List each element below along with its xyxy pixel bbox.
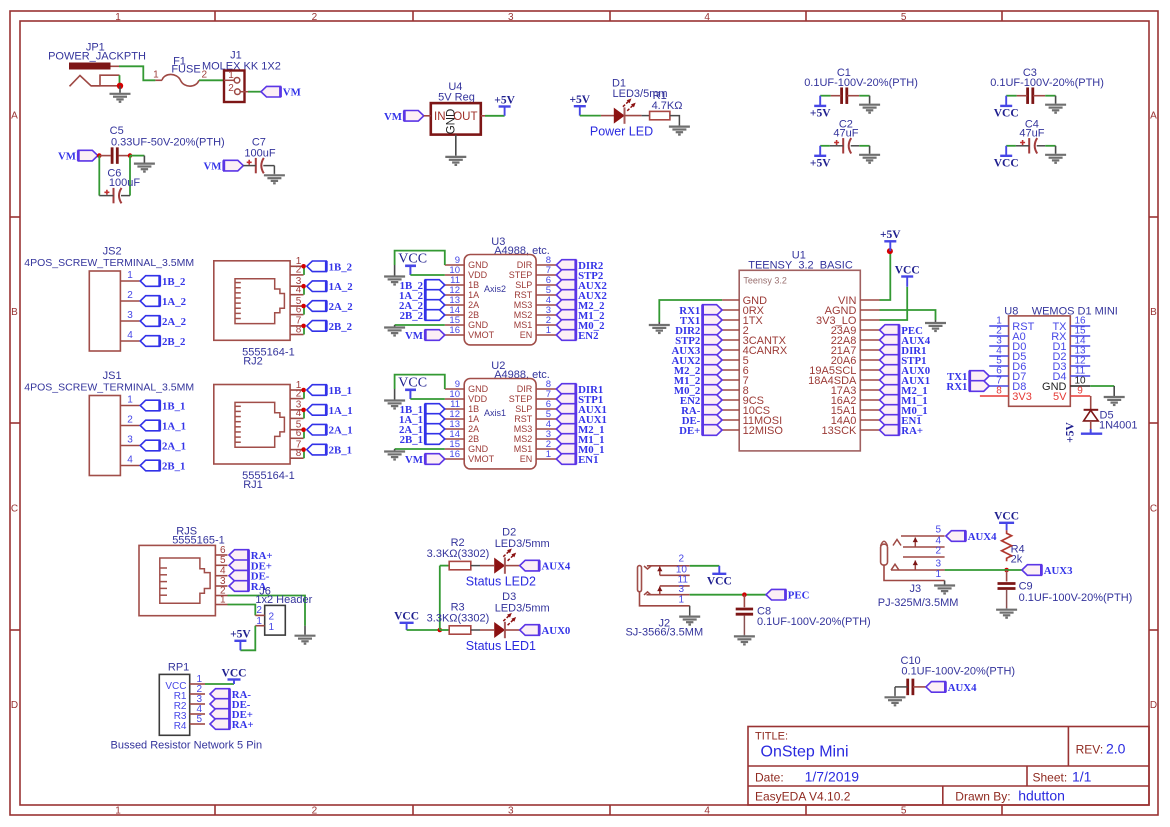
net flag EN2 — [703, 395, 723, 406]
wire — [1045, 145, 1055, 147]
svg-text:100uF: 100uF — [109, 177, 140, 189]
net flag AUX2 — [556, 280, 576, 291]
power flag VCC — [400, 622, 414, 624]
ground — [384, 265, 405, 285]
net flag TX1 — [703, 315, 723, 326]
wire — [395, 448, 445, 450]
svg-text:DIR: DIR — [517, 384, 533, 394]
net flag M1_2 — [703, 375, 723, 386]
svg-text:VCC: VCC — [222, 667, 247, 679]
net flag RA+ — [210, 719, 230, 730]
title block — [748, 727, 1149, 806]
svg-text:RST: RST — [514, 414, 533, 424]
power flag +5V — [814, 105, 826, 107]
net flag AUX3 — [1022, 565, 1042, 576]
power flag +5V — [814, 155, 826, 157]
net flag 2A_2 — [307, 301, 327, 312]
wire — [670, 116, 680, 126]
svg-text:MS3: MS3 — [514, 300, 533, 310]
svg-text:16: 16 — [449, 325, 460, 336]
svg-text:4: 4 — [127, 330, 133, 341]
svg-text:LED3/5mm: LED3/5mm — [495, 602, 550, 614]
wire — [303, 306, 305, 315]
svg-text:2: 2 — [312, 12, 318, 23]
net flag PEC — [880, 325, 900, 336]
svg-text:EasyEDA V4.10.2: EasyEDA V4.10.2 — [755, 790, 851, 804]
MCU U1 TEENSY_3.2_BASIC — [722, 249, 879, 451]
wire — [410, 398, 444, 400]
wire — [303, 390, 305, 399]
wire — [894, 687, 896, 696]
power flag VCC — [999, 522, 1014, 524]
junction — [301, 388, 306, 393]
wire — [303, 410, 305, 419]
net flag M1_1 — [556, 434, 576, 445]
power flag +5V — [234, 640, 246, 642]
net flag 1A_1 — [140, 420, 160, 431]
svg-text:+5V: +5V — [1065, 422, 1077, 443]
svg-text:4: 4 — [127, 455, 133, 466]
svg-text:MS1: MS1 — [514, 444, 533, 454]
net flag 1A_2 — [140, 296, 160, 307]
net flag M2_2 — [556, 300, 576, 311]
connector RJS 5555165-1 — [139, 526, 228, 616]
net flag M0_2 — [703, 385, 723, 396]
junction — [301, 264, 306, 269]
net flag 2A_1 — [307, 424, 327, 435]
svg-text:VCC: VCC — [895, 264, 920, 276]
net flag DE- — [210, 699, 230, 710]
resistor R2 — [427, 537, 490, 570]
capacitor C2 — [830, 118, 859, 153]
svg-text:0.1UF-100V-20%(PTH): 0.1UF-100V-20%(PTH) — [990, 77, 1104, 89]
svg-text:1A_1: 1A_1 — [162, 421, 186, 433]
svg-text:D: D — [1150, 700, 1157, 711]
net flag 1A_2 — [425, 290, 445, 301]
svg-text:SLP: SLP — [515, 404, 532, 414]
net flag AUX4 — [520, 560, 540, 571]
svg-text:1A: 1A — [468, 290, 479, 300]
net flag DE+ — [229, 560, 249, 571]
svg-text:RST: RST — [514, 290, 533, 300]
svg-text:2A_2: 2A_2 — [162, 316, 186, 328]
wire — [129, 156, 131, 196]
svg-text:GND: GND — [468, 260, 489, 270]
svg-text:1B_1: 1B_1 — [329, 385, 352, 397]
fuse F1 — [153, 56, 207, 87]
svg-text:1A_2: 1A_2 — [162, 296, 186, 308]
power flag VCC — [712, 573, 726, 575]
svg-text:4POS_SCREW_TERMINAL_3.5MM: 4POS_SCREW_TERMINAL_3.5MM — [24, 257, 194, 269]
driver module U3 A4988 — [445, 236, 557, 345]
LED D1 — [601, 77, 668, 123]
svg-text:EN2: EN2 — [578, 330, 598, 342]
junction — [301, 447, 306, 452]
svg-text:AUX4: AUX4 — [542, 561, 571, 573]
net flag VM — [224, 160, 244, 171]
svg-text:2B_1: 2B_1 — [400, 434, 423, 446]
svg-text:STEP: STEP — [509, 394, 533, 404]
junction — [301, 408, 306, 413]
capacitor C4 — [1016, 118, 1045, 153]
svg-text:SJ-3566/3.5MM: SJ-3566/3.5MM — [625, 627, 703, 639]
svg-text:2B_1: 2B_1 — [162, 461, 185, 473]
svg-text:1: 1 — [115, 806, 121, 817]
svg-text:1/1: 1/1 — [1072, 769, 1092, 785]
svg-text:EN: EN — [520, 454, 533, 464]
wire — [1006, 95, 1016, 97]
net flag 1A_2 — [307, 281, 327, 292]
net flag 1B_1 — [307, 385, 327, 396]
svg-text:8: 8 — [296, 448, 302, 459]
net flag AUX4 — [946, 531, 966, 542]
svg-text:+5V: +5V — [230, 629, 251, 641]
net flag DIR2 — [556, 260, 576, 271]
net flag 1B_2 — [307, 261, 327, 272]
junction — [301, 284, 306, 289]
wire — [1006, 145, 1016, 147]
svg-text:Status LED1: Status LED1 — [466, 639, 536, 653]
svg-text:3: 3 — [127, 435, 133, 446]
svg-text:2: 2 — [256, 605, 262, 616]
power flag +5V — [574, 105, 586, 107]
svg-text:8: 8 — [996, 386, 1002, 397]
svg-text:8: 8 — [296, 324, 302, 335]
svg-text:Bussed Resistor Network 5 Pin: Bussed Resistor Network 5 Pin — [110, 739, 262, 751]
net flag DE- — [229, 570, 249, 581]
net flag AUX1 — [556, 414, 576, 425]
svg-text:5: 5 — [220, 555, 226, 566]
net flag 2B_1 — [425, 434, 445, 445]
svg-text:PEC: PEC — [788, 590, 810, 602]
svg-text:DIR: DIR — [517, 260, 533, 270]
svg-text:+5V: +5V — [569, 94, 590, 106]
svg-text:RP1: RP1 — [168, 661, 189, 673]
ground — [859, 96, 880, 113]
ground — [925, 320, 946, 331]
svg-text:VCC: VCC — [398, 376, 427, 391]
capacitor C3 — [990, 67, 1104, 104]
svg-text:EN: EN — [520, 330, 533, 340]
ground — [1045, 96, 1066, 113]
net flag DE+ — [210, 709, 230, 720]
power flag VCC — [1000, 155, 1012, 157]
svg-text:REV:: REV: — [1076, 743, 1104, 757]
svg-text:2: 2 — [296, 265, 302, 276]
svg-text:1: 1 — [127, 270, 133, 281]
power flag VCC — [228, 678, 241, 680]
net flag M0_1 — [556, 444, 576, 455]
connector JS2 4POS_SCREW_TERMINAL_3.5MM — [24, 246, 194, 352]
ground — [384, 325, 405, 336]
ground — [734, 635, 755, 645]
svg-text:A: A — [11, 110, 18, 121]
junction — [301, 304, 306, 309]
svg-text:TITLE:: TITLE: — [755, 731, 788, 743]
junction — [887, 248, 893, 254]
svg-text:1: 1 — [127, 395, 133, 406]
wire — [395, 324, 445, 326]
capacitor C1 — [804, 67, 918, 104]
capacitor C8 — [736, 595, 871, 635]
svg-text:2A_2: 2A_2 — [329, 301, 353, 313]
junction — [117, 83, 123, 89]
wire — [98, 156, 100, 196]
svg-text:STEP: STEP — [509, 270, 533, 280]
wire — [580, 115, 601, 117]
resistor network RP1 — [159, 661, 205, 735]
net flag DE+ — [703, 425, 723, 436]
connector JS1 4POS_SCREW_TERMINAL_3.5MM — [24, 370, 194, 476]
net flag RA- — [210, 689, 230, 700]
net flag DE- — [703, 415, 723, 426]
svg-text:6: 6 — [296, 428, 302, 439]
wire — [130, 155, 144, 157]
svg-text:2B: 2B — [468, 310, 479, 320]
ground — [264, 173, 285, 183]
capacitor C5 — [99, 125, 224, 164]
ground — [996, 608, 1017, 618]
svg-text:D3: D3 — [502, 591, 516, 603]
svg-text:2A_1: 2A_1 — [162, 441, 186, 453]
wire — [689, 606, 691, 615]
net flag VM — [404, 111, 424, 122]
svg-text:GND: GND — [468, 384, 489, 394]
net flag AUX0 — [880, 365, 900, 376]
net flag 2B_2 — [140, 336, 160, 347]
svg-text:3.3KΩ(3302): 3.3KΩ(3302) — [427, 613, 490, 625]
svg-text:1: 1 — [228, 70, 234, 81]
net flag VM — [425, 330, 445, 341]
svg-text:GND: GND — [468, 320, 489, 330]
ground — [885, 696, 906, 706]
net flag PEC — [766, 589, 786, 600]
net flag AUX2 — [556, 290, 576, 301]
net flag M2_1 — [880, 385, 900, 396]
svg-text:2B_2: 2B_2 — [162, 336, 185, 348]
svg-text:3V3: 3V3 — [1012, 391, 1032, 403]
svg-text:6: 6 — [296, 304, 302, 315]
svg-text:0.1UF-100V-20%(PTH): 0.1UF-100V-20%(PTH) — [901, 666, 1015, 678]
net flag AUX3 — [703, 345, 723, 356]
svg-text:VCC: VCC — [398, 252, 427, 267]
svg-text:FUSE: FUSE — [171, 64, 200, 76]
svg-text:1: 1 — [269, 622, 275, 633]
svg-text:VM: VM — [405, 454, 423, 466]
ground — [1045, 146, 1066, 163]
net flag VM — [261, 86, 281, 97]
svg-text:IN: IN — [434, 111, 446, 123]
net flag M1_1 — [880, 395, 900, 406]
svg-text:0.1UF-100V-20%(PTH): 0.1UF-100V-20%(PTH) — [1019, 592, 1133, 604]
wire — [690, 594, 766, 596]
resistor R1 — [642, 90, 683, 120]
svg-text:2A: 2A — [468, 300, 479, 310]
LED D2 — [480, 526, 550, 573]
svg-text:1A_2: 1A_2 — [329, 281, 353, 293]
wire — [820, 95, 830, 97]
wire — [690, 565, 720, 567]
net flag M2_1 — [556, 424, 576, 435]
svg-text:1: 1 — [115, 12, 121, 23]
net flag 2B_2 — [307, 321, 327, 332]
net flag DIR2 — [703, 325, 723, 336]
svg-text:3: 3 — [508, 806, 514, 817]
junction — [128, 153, 133, 158]
wire — [659, 300, 722, 322]
power flag +5V — [884, 240, 896, 242]
wire — [240, 626, 255, 651]
svg-text:JS1: JS1 — [103, 370, 122, 382]
wire — [199, 79, 224, 81]
net flag STP2 — [556, 270, 576, 281]
connector RJ1 5555164-1 — [214, 380, 304, 464]
junction — [438, 628, 443, 633]
LED D3 — [480, 591, 550, 638]
svg-text:Sheet:: Sheet: — [1033, 771, 1068, 785]
net flag RA- — [229, 581, 249, 592]
net flag VM — [425, 454, 445, 465]
svg-text:5: 5 — [197, 714, 203, 725]
net flag 1B_1 — [425, 404, 445, 415]
svg-text:VCC: VCC — [707, 575, 732, 587]
wire — [228, 605, 256, 616]
junction — [1004, 568, 1009, 573]
svg-text:5: 5 — [901, 12, 907, 23]
svg-text:D: D — [11, 700, 18, 711]
wire — [945, 569, 1022, 571]
svg-text:RJ1: RJ1 — [243, 479, 263, 491]
net flag DIR1 — [556, 384, 576, 395]
net flag 2A_1 — [425, 424, 445, 435]
connector JP1 POWER_JACKPTH — [48, 42, 146, 87]
svg-text:1A: 1A — [468, 414, 479, 424]
svg-text:JS2: JS2 — [103, 246, 122, 258]
svg-text:VDD: VDD — [468, 394, 488, 404]
power flag +5V — [1081, 433, 1102, 435]
svg-text:GND: GND — [446, 109, 458, 135]
ground — [110, 86, 131, 102]
ground — [669, 125, 690, 135]
wire — [303, 450, 305, 459]
wire — [439, 566, 441, 630]
svg-text:1B_1: 1B_1 — [162, 401, 185, 413]
svg-text:5: 5 — [935, 525, 941, 536]
svg-text:C9: C9 — [1019, 580, 1033, 592]
net flag STP2 — [703, 335, 723, 346]
svg-text:VM: VM — [384, 111, 402, 123]
svg-text:2: 2 — [296, 388, 302, 399]
junction — [301, 324, 306, 329]
wire — [440, 565, 449, 567]
net flag AUX0 — [520, 625, 540, 636]
svg-text:4: 4 — [704, 806, 710, 817]
svg-text:2: 2 — [228, 83, 234, 94]
net flag M0_1 — [880, 405, 900, 416]
net flag VM — [78, 150, 98, 161]
ground — [384, 389, 405, 409]
svg-text:VCC: VCC — [394, 611, 419, 623]
svg-text:5: 5 — [901, 806, 907, 817]
net flag DIR1 — [880, 345, 900, 356]
net flag 1B_1 — [140, 400, 160, 411]
svg-text:R4: R4 — [174, 721, 187, 732]
svg-text:RX1: RX1 — [946, 381, 967, 393]
svg-text:2B: 2B — [468, 434, 479, 444]
svg-text:1: 1 — [153, 70, 159, 81]
svg-text:Teensy 3.2: Teensy 3.2 — [743, 276, 787, 286]
svg-text:POWER_JACKPTH: POWER_JACKPTH — [48, 51, 146, 63]
svg-text:0.33UF-50V-20%(PTH): 0.33UF-50V-20%(PTH) — [111, 136, 225, 148]
net flag AUX4 — [880, 335, 900, 346]
svg-text:2A_1: 2A_1 — [329, 425, 353, 437]
svg-text:1/7/2019: 1/7/2019 — [805, 769, 860, 785]
net flag RA- — [703, 405, 723, 416]
resistor R3 — [427, 602, 490, 635]
svg-text:VM: VM — [283, 87, 301, 99]
connector J2 SJ-3566/3.5MM — [625, 554, 703, 639]
svg-text:5V Reg: 5V Reg — [438, 92, 475, 104]
svg-text:4: 4 — [704, 12, 710, 23]
svg-text:2: 2 — [678, 554, 684, 565]
wire — [303, 326, 305, 335]
svg-text:hdutton: hdutton — [1018, 788, 1065, 804]
svg-text:1B_2: 1B_2 — [329, 261, 352, 273]
net flag 1B_2 — [425, 280, 445, 291]
svg-text:47uF: 47uF — [1019, 127, 1044, 139]
svg-text:4.7KΩ: 4.7KΩ — [652, 100, 683, 112]
svg-text:1: 1 — [546, 325, 551, 336]
svg-text:1B: 1B — [468, 280, 479, 290]
svg-text:AUX0: AUX0 — [542, 625, 571, 637]
svg-text:DE+: DE+ — [679, 425, 700, 437]
net flag 2B_2 — [425, 310, 445, 321]
svg-text:3: 3 — [935, 559, 941, 570]
svg-text:4: 4 — [296, 285, 302, 296]
svg-text:EN1: EN1 — [578, 454, 598, 466]
wire — [880, 310, 936, 320]
svg-text:VCC: VCC — [994, 511, 1019, 523]
svg-text:1B_2: 1B_2 — [162, 276, 185, 288]
svg-text:5V: 5V — [1053, 391, 1067, 403]
wire — [859, 145, 869, 147]
net flag EN1 — [556, 454, 576, 465]
ground — [134, 156, 155, 172]
svg-text:4POS_SCREW_TERMINAL_3.5MM: 4POS_SCREW_TERMINAL_3.5MM — [24, 382, 194, 394]
svg-text:+5V: +5V — [494, 94, 515, 106]
wire — [485, 115, 505, 117]
svg-text:1x2 Header: 1x2 Header — [255, 594, 312, 606]
svg-text:2.0: 2.0 — [1106, 741, 1126, 757]
svg-text:OnStep Mini: OnStep Mini — [761, 744, 849, 761]
svg-text:GND: GND — [468, 444, 489, 454]
svg-text:1: 1 — [256, 616, 262, 627]
wire — [303, 286, 305, 295]
svg-text:9: 9 — [1077, 386, 1083, 397]
net flag 2A_2 — [425, 300, 445, 311]
power flag VCC — [1000, 105, 1012, 107]
svg-text:1: 1 — [546, 449, 551, 460]
wire — [248, 91, 261, 93]
svg-text:RA+: RA+ — [232, 719, 254, 731]
svg-text:VMOT: VMOT — [468, 454, 495, 464]
svg-text:2B_2: 2B_2 — [329, 321, 352, 333]
svg-text:1: 1 — [220, 594, 226, 605]
wire — [1045, 95, 1055, 97]
net flag 2A_2 — [140, 316, 160, 327]
wire — [880, 251, 891, 300]
svg-text:VCC: VCC — [994, 157, 1019, 169]
